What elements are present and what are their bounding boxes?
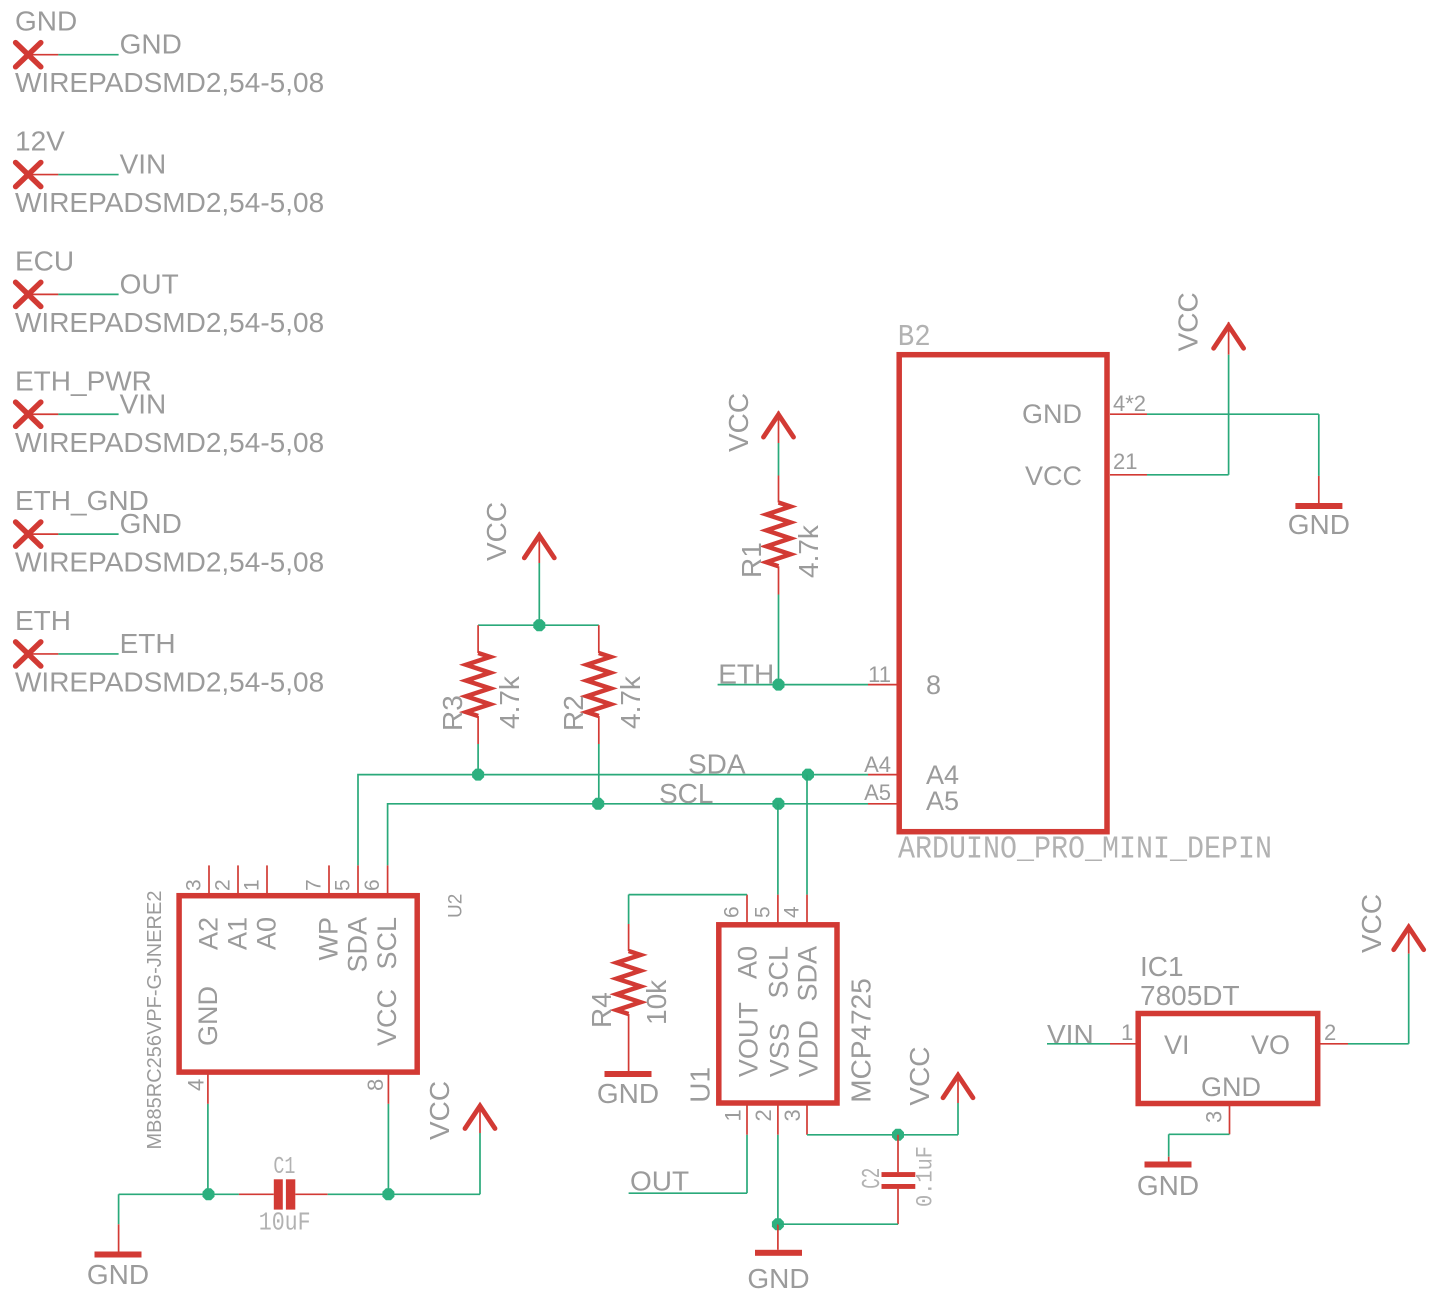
svg-text:5: 5 <box>332 879 355 891</box>
svg-text:VCC: VCC <box>1025 461 1082 491</box>
svg-text:3: 3 <box>1202 1111 1227 1123</box>
svg-text:7805DT: 7805DT <box>1140 980 1240 1011</box>
svg-text:1: 1 <box>721 1109 746 1121</box>
svg-text:MB85RC256VPF-G-JNERE2: MB85RC256VPF-G-JNERE2 <box>144 891 166 1150</box>
svg-text:A2: A2 <box>194 917 224 950</box>
svg-text:SDA: SDA <box>688 749 746 780</box>
svg-text:6: 6 <box>721 906 744 918</box>
svg-text:B2: B2 <box>898 320 931 355</box>
svg-text:GND: GND <box>1201 1072 1261 1102</box>
svg-text:WIREPADSMD2,54-5,08: WIREPADSMD2,54-5,08 <box>15 547 324 578</box>
svg-text:VCC: VCC <box>372 989 402 1046</box>
svg-text:R3: R3 <box>437 695 468 731</box>
svg-text:OUT: OUT <box>120 268 179 299</box>
svg-text:WIREPADSMD2,54-5,08: WIREPADSMD2,54-5,08 <box>15 427 324 458</box>
svg-text:8: 8 <box>926 670 941 700</box>
svg-text:GND: GND <box>15 6 77 37</box>
svg-text:5: 5 <box>751 906 774 918</box>
svg-text:U2: U2 <box>446 894 467 918</box>
svg-text:MCP4725: MCP4725 <box>846 978 877 1103</box>
svg-text:4*2: 4*2 <box>1113 391 1146 416</box>
svg-text:GND: GND <box>193 986 223 1046</box>
svg-text:VCC: VCC <box>904 1046 935 1105</box>
svg-text:GND: GND <box>87 1259 149 1290</box>
svg-text:11: 11 <box>868 662 891 687</box>
svg-text:U1: U1 <box>685 1067 716 1103</box>
svg-text:3: 3 <box>780 1109 805 1121</box>
svg-text:2: 2 <box>212 879 235 891</box>
svg-text:VIN: VIN <box>120 149 167 180</box>
svg-text:2: 2 <box>751 1109 776 1121</box>
svg-text:10k: 10k <box>641 979 672 1025</box>
svg-text:A5: A5 <box>926 786 959 816</box>
svg-text:SDA: SDA <box>793 946 823 1002</box>
svg-text:4.7k: 4.7k <box>494 675 525 729</box>
svg-text:2: 2 <box>1324 1020 1336 1045</box>
svg-text:ARDUINO_PRO_MINI_DEPIN: ARDUINO_PRO_MINI_DEPIN <box>898 833 1272 868</box>
svg-text:A5: A5 <box>864 780 891 805</box>
svg-text:A4: A4 <box>864 752 891 777</box>
svg-text:A0: A0 <box>252 917 282 950</box>
svg-text:SCL: SCL <box>372 917 402 970</box>
svg-text:8: 8 <box>363 1079 388 1091</box>
svg-text:WIREPADSMD2,54-5,08: WIREPADSMD2,54-5,08 <box>15 67 324 98</box>
svg-text:VCC: VCC <box>723 393 754 452</box>
svg-text:R2: R2 <box>558 695 589 731</box>
svg-text:A0: A0 <box>733 946 763 979</box>
svg-text:GND: GND <box>120 29 182 60</box>
svg-text:21: 21 <box>1113 449 1137 474</box>
svg-text:C1: C1 <box>273 1154 295 1181</box>
svg-text:4.7k: 4.7k <box>615 675 646 729</box>
svg-text:IC1: IC1 <box>1140 951 1184 982</box>
svg-text:12V: 12V <box>15 126 65 157</box>
svg-text:ECU: ECU <box>15 245 74 276</box>
svg-text:10uF: 10uF <box>259 1209 311 1238</box>
svg-text:A1: A1 <box>223 917 253 950</box>
svg-text:GND: GND <box>1288 509 1350 540</box>
svg-text:OUT: OUT <box>630 1166 689 1197</box>
svg-text:VI: VI <box>1164 1030 1190 1060</box>
svg-text:0.1uF: 0.1uF <box>913 1146 939 1207</box>
svg-text:SCL: SCL <box>763 946 793 999</box>
svg-text:VCC: VCC <box>1356 894 1387 953</box>
svg-text:C2: C2 <box>857 1168 887 1189</box>
svg-text:SCL: SCL <box>659 778 713 809</box>
svg-text:ETH: ETH <box>15 605 71 636</box>
svg-text:GND: GND <box>747 1263 809 1294</box>
svg-text:3: 3 <box>183 879 206 891</box>
svg-text:SDA: SDA <box>343 917 373 973</box>
svg-text:WIREPADSMD2,54-5,08: WIREPADSMD2,54-5,08 <box>15 666 324 697</box>
svg-text:WIREPADSMD2,54-5,08: WIREPADSMD2,54-5,08 <box>15 307 324 338</box>
svg-text:VIN: VIN <box>1047 1019 1094 1050</box>
svg-text:WP: WP <box>314 917 344 961</box>
svg-text:VOUT: VOUT <box>734 1002 764 1077</box>
svg-text:4.7k: 4.7k <box>793 524 824 578</box>
svg-text:GND: GND <box>120 508 182 539</box>
svg-text:GND: GND <box>1137 1170 1199 1201</box>
svg-text:4: 4 <box>781 906 804 918</box>
svg-text:VO: VO <box>1251 1030 1290 1060</box>
svg-text:6: 6 <box>361 879 384 891</box>
svg-text:4: 4 <box>183 1079 208 1091</box>
svg-text:7: 7 <box>303 879 326 891</box>
svg-text:1: 1 <box>241 879 264 891</box>
svg-text:VCC: VCC <box>481 502 512 561</box>
svg-text:VSS: VSS <box>764 1023 794 1077</box>
svg-text:VDD: VDD <box>794 1020 824 1077</box>
svg-text:WIREPADSMD2,54-5,08: WIREPADSMD2,54-5,08 <box>15 187 324 218</box>
svg-text:R4: R4 <box>586 992 617 1028</box>
svg-text:ETH: ETH <box>120 628 176 659</box>
svg-text:1: 1 <box>1121 1020 1133 1045</box>
svg-text:VCC: VCC <box>1173 292 1204 351</box>
svg-text:GND: GND <box>1022 399 1082 429</box>
svg-text:R1: R1 <box>736 542 767 578</box>
svg-text:GND: GND <box>597 1078 659 1109</box>
svg-text:VIN: VIN <box>120 388 167 419</box>
svg-text:VCC: VCC <box>424 1081 455 1140</box>
